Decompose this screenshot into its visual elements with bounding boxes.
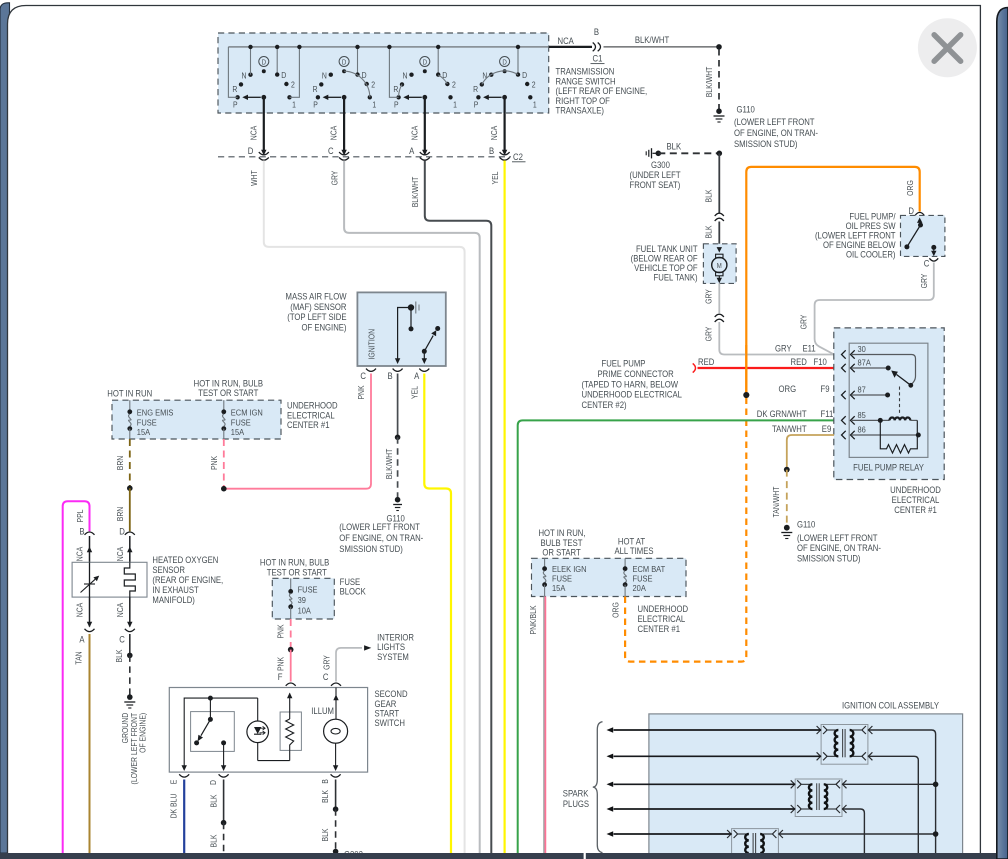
wire WHT [264,161,465,854]
ground G302 [333,849,339,855]
svg-text:D: D [423,59,428,67]
svg-text:DK BLU: DK BLU [169,794,179,819]
svg-text:G110: G110 [797,519,816,530]
svg-text:NCA: NCA [115,603,125,618]
TRS gang 3 wiper arcs [399,84,402,96]
svg-text:D: D [522,71,528,81]
TRS gang 2 contacts [313,45,377,110]
TRS gang 1 left wire to P [228,47,237,97]
inline connector [715,213,724,216]
TRS gang 1 N-bar [250,47,252,75]
svg-text:A: A [79,634,85,645]
splice dot [395,435,401,441]
wire GRY to relay pin 30 [719,322,834,355]
wire BLK from sensor C [129,634,131,655]
svg-text:PNK: PNK [276,624,286,638]
svg-text:CENTER #1: CENTER #1 [894,504,937,515]
svg-text:ECM BAT: ECM BAT [633,564,666,574]
ignition coil T1 [817,725,873,765]
svg-text:BLK/WHT: BLK/WHT [410,176,420,207]
wire YEL [504,161,506,854]
svg-text:OR START: OR START [542,547,580,558]
wire ORG solid up and to oil pressure switch [746,167,919,395]
fuel tank unit box [703,244,736,284]
svg-text:TAN/WHT: TAN/WHT [772,423,807,434]
svg-text:OIL COOLER): OIL COOLER) [846,249,896,260]
connector C1 [593,43,596,52]
MAF sensor box [357,292,445,366]
svg-text:F11: F11 [821,409,834,420]
svg-text:YEL: YEL [490,172,500,185]
ignition coil T2 [791,779,847,817]
coil secondary bus [868,730,936,853]
bottom bar [0,853,998,859]
svg-text:87: 87 [858,385,867,395]
spark plugs brace [593,722,603,853]
oil pres switch contact C [931,245,936,250]
svg-text:BLK/WHT: BLK/WHT [384,448,394,479]
svg-text:FUEL PUMP: FUEL PUMP [602,358,646,369]
fuse ELEK IGN 15A [544,558,546,568]
spark plug wire 4 [614,808,796,810]
MAF connector C [366,369,376,372]
svg-text:NCA: NCA [75,547,85,562]
svg-text:1: 1 [292,100,296,110]
svg-text:F: F [278,671,283,682]
svg-text:F9: F9 [821,383,830,394]
splice dot [221,820,227,826]
relay resistor parallel [880,420,917,453]
fuel pump relay outer box [834,328,944,480]
splice dot BLK [127,653,133,659]
svg-text:GRY: GRY [704,327,714,342]
svg-text:ORG: ORG [611,602,621,618]
svg-text:NCA: NCA [115,547,125,562]
svg-text:(LOWER LEFT FRONT: (LOWER LEFT FRONT [339,522,420,533]
svg-text:C: C [119,634,125,645]
svg-text:2: 2 [452,80,456,90]
svg-text:15A: 15A [552,583,566,593]
TRS pole wire B through C2 [504,97,506,151]
svg-text:G110: G110 [737,104,756,115]
svg-text:(MAF) SENSOR: (MAF) SENSOR [290,301,346,312]
svg-text:C1: C1 [593,53,603,64]
svg-text:SMISSION STUD): SMISSION STUD) [734,138,798,149]
wire YEL from MAF A [424,374,451,854]
transmission range switch box [218,33,549,113]
svg-text:YEL: YEL [410,386,420,399]
TRS gang 3 contacts [393,45,457,110]
svg-text:C: C [360,370,366,381]
wire ORG overlay at crossings [745,345,747,395]
svg-text:D: D [262,59,267,67]
svg-text:E11: E11 [803,343,816,354]
underhood electrical center 1 box (second) [532,558,687,596]
svg-text:85: 85 [858,411,867,421]
svg-text:FUSE: FUSE [552,574,572,584]
ground G110 (tan/wht) [784,525,790,531]
prime connector symbol [693,363,696,372]
svg-text:BRN: BRN [116,456,126,471]
svg-text:NCA: NCA [249,126,259,141]
HO2S variable sensor element [89,562,91,597]
wire BLK to fuel tank unit [718,222,720,244]
svg-text:FUEL TANK): FUEL TANK) [654,272,698,283]
svg-text:D: D [119,526,125,537]
ground (lower left front of engine) [127,694,133,700]
ground G300 [653,152,657,154]
svg-text:WHT: WHT [249,170,259,186]
wire DK BLU [183,780,185,854]
svg-text:FUSE: FUSE [231,418,251,428]
svg-text:CENTER #2): CENTER #2) [582,400,627,411]
svg-text:P: P [313,100,318,110]
svg-text:BLK: BLK [321,790,331,803]
wire BLK/WHT dashed down to G110 [718,49,720,111]
svg-text:30: 30 [858,345,867,355]
svg-text:2: 2 [532,80,536,90]
svg-text:R: R [313,85,319,95]
svg-text:FUSE: FUSE [633,574,653,584]
switch arm [209,698,211,719]
svg-text:GRY: GRY [919,274,929,289]
switch contact to D [221,740,226,745]
svg-text:R: R [393,85,399,95]
svg-text:2: 2 [291,80,295,90]
wire DK GRN/WHT [518,420,834,853]
fuse ECM BAT 20A [624,558,626,568]
wire BRN solid to oxygen sensor [129,488,131,531]
HO2S heater element [124,562,135,597]
switch connector B [331,774,341,777]
svg-text:FRONT SEAT): FRONT SEAT) [630,179,681,190]
wire GRY to interior lights [336,648,362,682]
svg-text:E9: E9 [822,423,832,434]
svg-text:B: B [594,27,600,38]
fuel pump motor M [717,247,722,252]
junction dot T2 secondary [842,783,936,785]
switch contact sub-box [191,712,235,752]
svg-text:N: N [482,71,487,81]
wire PNK dashed from fuse 39 [290,619,292,650]
svg-text:BLK: BLK [321,828,331,841]
svg-text:E: E [169,780,179,785]
wire GRY [344,161,480,854]
svg-text:D: D [281,71,287,81]
svg-text:IGNITION: IGNITION [367,329,377,360]
svg-text:C2: C2 [513,151,523,162]
fuse block box [272,578,334,619]
switch connector D [219,774,229,777]
TRS pole wire D through C2 [263,97,265,151]
svg-text:OF ENGINE, ON TRAN-: OF ENGINE, ON TRAN- [734,127,818,138]
T1 secondary lower wire [868,756,918,853]
wire BRN dashed from fuse [129,439,131,488]
svg-text:P: P [474,100,479,110]
svg-text:CENTER #1: CENTER #1 [638,623,681,634]
svg-text:BLK: BLK [667,141,682,152]
MAF element lower dot [410,308,412,329]
TRS pole wire A through C2 [424,97,426,151]
svg-text:GRY: GRY [704,289,714,304]
svg-text:OF ENGINE): OF ENGINE) [138,712,148,753]
wire BLK/WHT dashed to G110 [397,437,399,499]
svg-text:RED: RED [698,356,714,367]
svg-text:C: C [323,671,329,682]
svg-text:MASS AIR FLOW: MASS AIR FLOW [286,291,347,302]
svg-text:M: M [717,263,722,271]
TRS gang 4 wiper arc [482,71,518,84]
switch resistor [258,760,290,762]
wire TAN/WHT dashed to G110 [786,470,788,528]
ground G110 (top) [716,108,722,114]
svg-text:HOT IN RUN: HOT IN RUN [107,388,152,399]
wire PNK/BLK [543,597,545,854]
wire BLK/WHT [425,161,492,854]
svg-text:P: P [394,100,399,110]
svg-text:DK GRN/WHT: DK GRN/WHT [757,409,807,420]
svg-text:NCA: NCA [558,36,575,47]
splice dot [784,467,790,473]
spark plug wire 1 [614,729,822,731]
left panel edge [0,3,10,853]
svg-text:PPL: PPL [75,510,85,523]
svg-text:PNK/BLK: PNK/BLK [528,605,538,634]
svg-text:PNK: PNK [276,657,286,671]
svg-text:ORG: ORG [906,180,916,196]
MAF variable arm [422,349,427,354]
fuel pump / oil pres switch box [901,215,945,256]
svg-text:NCA: NCA [490,126,500,141]
fuel pump relay inner box [849,343,928,457]
T2 secondary lower wire [842,809,864,853]
spark plug wire 5 [614,833,732,835]
svg-text:B: B [321,779,331,784]
wire BLK from B [335,780,337,810]
splice dot PNK [221,486,227,492]
oil pres switch arm [917,218,922,223]
svg-text:MANIFOLD): MANIFOLD) [152,594,195,605]
MAF sensing element [408,304,414,310]
fuse ENG EMIS 15A [129,400,131,412]
MAF connector A [419,369,429,372]
svg-text:SWITCH: SWITCH [375,717,405,728]
svg-text:TAN/WHT: TAN/WHT [771,486,781,517]
svg-text:ELEK IGN: ELEK IGN [552,564,587,574]
svg-text:ENG EMIS: ENG EMIS [137,408,174,418]
svg-text:ECM IGN: ECM IGN [231,408,263,418]
svg-text:2: 2 [371,80,375,90]
inline connector [715,314,724,317]
svg-text:B: B [387,370,393,381]
svg-text:PNK: PNK [356,385,366,399]
svg-text:GRY: GRY [775,343,792,354]
splice dot [288,647,294,653]
svg-text:39: 39 [298,596,307,606]
switch connector E [179,774,189,777]
wire BLK dashed [223,823,225,853]
svg-text:PRIME CONNECTOR: PRIME CONNECTOR [598,368,674,379]
wire BLK dashed to ground [129,655,131,697]
svg-text:C: C [924,258,930,269]
svg-text:D: D [208,779,218,785]
svg-text:NCA: NCA [329,126,339,141]
svg-text:OF ENGINE, ON TRAN-: OF ENGINE, ON TRAN- [797,543,881,554]
svg-text:D: D [248,145,254,156]
svg-text:FUSE: FUSE [137,418,157,428]
splice dot [333,806,339,812]
svg-text:1: 1 [453,100,457,110]
TRS gang 1 right wire to 1 [290,47,300,97]
wire GRY from fuel tank [718,283,720,313]
wire PNK from MAF C to ECM IGN fuse [224,374,371,489]
svg-text:D: D [908,205,914,216]
svg-text:1: 1 [372,100,376,110]
svg-text:(LOWER LEFT FRONT: (LOWER LEFT FRONT [734,116,815,127]
wire BLK down to connector [718,153,720,213]
TRS pole wire C through C2 [343,97,345,151]
wire BLK/WHT horizontal to splice [604,46,720,48]
underhood electrical center 1 box [112,400,281,439]
svg-text:B: B [489,145,495,156]
svg-text:BLK/WHT: BLK/WHT [635,35,669,46]
svg-text:P: P [233,100,238,110]
svg-text:BRN: BRN [116,507,126,522]
svg-text:C: C [328,145,334,156]
connector C2 dashed line [218,156,511,158]
TRS gang 1 contacts [232,45,296,110]
wire BLK/WHT from MAF B [397,374,399,438]
second gear start switch box [169,688,367,773]
TRS gang 3 left wire to P [389,47,398,97]
svg-text:1: 1 [533,100,537,110]
svg-text:(TAPED TO HARN, BELOW: (TAPED TO HARN, BELOW [582,379,679,390]
svg-text:D: D [342,59,347,67]
svg-text:BLK: BLK [704,189,714,202]
svg-text:R: R [232,85,238,95]
svg-text:TRANSAXLE): TRANSAXLE) [556,105,605,116]
svg-text:SMISSION STUD): SMISSION STUD) [339,544,403,555]
spark plug wire 2 [614,755,822,757]
svg-text:ILLUM: ILLUM [311,706,334,717]
wire TAN from sensor A [89,634,91,853]
svg-text:(TOP LEFT SIDE: (TOP LEFT SIDE [287,312,347,323]
TRS gang 4 contacts [473,45,537,110]
svg-text:IGNITION COIL ASSEMBLY: IGNITION COIL ASSEMBLY [842,700,939,711]
svg-text:D: D [502,59,507,67]
svg-text:86: 86 [858,425,867,435]
wire PNK solid to switch F [290,650,292,682]
svg-text:15A: 15A [137,428,151,438]
wire NCA from TRS to C1 [549,46,592,48]
ground G110 (MAF) [395,497,401,503]
TRS internal bus [228,46,548,48]
svg-text:TAN: TAN [74,651,84,664]
wire PPL from sensor B [63,501,90,853]
close button [918,18,977,77]
wire GRY from oil pres switch to relay 30 [815,263,934,355]
svg-text:BLK: BLK [209,834,219,847]
svg-text:B: B [79,526,85,537]
svg-text:OF ENGINE, ON TRAN-: OF ENGINE, ON TRAN- [339,533,423,544]
svg-text:RED: RED [791,356,807,367]
HO2S terminal C [129,597,131,626]
svg-text:SMISSION STUD): SMISSION STUD) [797,553,861,564]
svg-text:BLK/WHT: BLK/WHT [704,66,714,97]
svg-text:NCA: NCA [410,126,420,141]
wire BLK dashed to G302 [335,809,337,851]
wire TAN/WHT from relay 86 [787,435,834,470]
splice dot BRN [127,485,133,491]
svg-text:BLK: BLK [209,794,219,807]
MAF connector B [393,369,403,372]
LED indicator [247,721,269,743]
switch internal top wire [184,698,258,766]
svg-text:GRY: GRY [799,315,809,330]
svg-text:ORG: ORG [779,383,797,394]
spark plug wire 3 [614,783,796,785]
svg-text:A: A [409,145,415,156]
wire BLK from D [223,780,225,823]
svg-text:15A: 15A [231,428,245,438]
fuse 39 10A [290,578,292,591]
splice dot [716,44,722,50]
svg-text:PNK: PNK [210,456,220,470]
svg-text:R: R [473,85,479,95]
svg-text:GRY: GRY [330,171,340,186]
svg-text:BLK: BLK [704,225,714,238]
svg-text:PLUGS: PLUGS [563,798,590,809]
svg-text:SPARK: SPARK [563,788,589,799]
fuse ECM IGN 15A [223,400,225,412]
svg-text:N: N [403,71,408,81]
relay armature link dashed [899,387,901,415]
wire RED to relay 87A [698,367,835,369]
svg-text:20A: 20A [633,583,647,593]
wire BLK dashed from G300 [658,152,719,154]
wire PNK dashed from fuse [223,439,225,489]
HO2S terminal A [89,597,91,626]
svg-text:FUEL PUMP RELAY: FUEL PUMP RELAY [853,462,924,473]
svg-text:GRY: GRY [322,655,332,670]
svg-text:OF ENGINE): OF ENGINE) [301,322,346,333]
svg-text:BLK: BLK [114,649,124,662]
svg-text:ALL TIMES: ALL TIMES [614,545,653,556]
heated oxygen sensor box [72,562,147,597]
svg-text:NCA: NCA [75,603,85,618]
svg-text:TEST OR START: TEST OR START [198,388,258,399]
splice dot [717,151,723,157]
MAF element wire to B [398,308,411,359]
svg-text:TEST OR START: TEST OR START [267,567,327,578]
svg-text:(LOWER LEFT FRONT: (LOWER LEFT FRONT [797,532,878,543]
relay switch arm [908,383,913,388]
svg-text:SYSTEM: SYSTEM [377,651,409,662]
arrow to interior lights system [364,645,371,650]
svg-text:CENTER #1: CENTER #1 [287,420,330,431]
junction dot T3 secondary [778,833,935,835]
svg-text:87A: 87A [858,358,872,368]
TRS gang 2 wiper arc [344,71,370,97]
svg-text:N: N [242,71,247,81]
ignition coil assembly box [649,714,963,859]
svg-text:UNDERHOOD ELECTRICAL: UNDERHOOD ELECTRICAL [582,389,683,400]
svg-text:A: A [414,370,420,381]
svg-text:10A: 10A [298,606,312,616]
svg-text:N: N [322,71,327,81]
svg-text:BLOCK: BLOCK [340,586,367,597]
svg-text:F10: F10 [814,356,828,367]
